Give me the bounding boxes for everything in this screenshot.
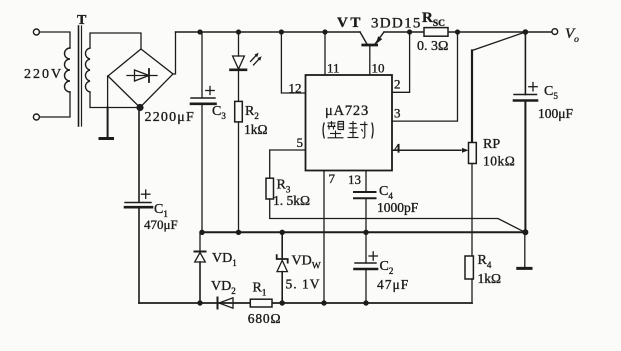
LED arrows bbox=[251, 55, 257, 62]
resistor R3 bbox=[266, 178, 274, 199]
transformer T primary bbox=[65, 48, 71, 92]
node bottom vertex bbox=[136, 104, 143, 111]
wire to output terminal bbox=[552, 29, 558, 35]
svg-text:1000pF: 1000pF bbox=[377, 200, 419, 215]
capacitor C1 bbox=[125, 202, 151, 204]
node ground junction bbox=[522, 229, 528, 235]
wire bridge right vertex to rail bbox=[173, 32, 176, 74]
svg-text:R2: R2 bbox=[245, 104, 259, 121]
wire base to pin10 bbox=[369, 46, 371, 75]
wire secondary top bbox=[90, 33, 141, 49]
wire pin3 bbox=[392, 32, 458, 121]
svg-text:5: 5 bbox=[297, 135, 304, 150]
capacitor C4 bbox=[354, 191, 376, 193]
transformer core bbox=[78, 26, 80, 126]
svg-text:1. 5kΩ: 1. 5kΩ bbox=[273, 193, 310, 208]
svg-text:7: 7 bbox=[329, 171, 336, 186]
wire pin2 bbox=[392, 32, 410, 92]
svg-text:220V: 220V bbox=[24, 67, 63, 82]
svg-text:VD2: VD2 bbox=[211, 279, 236, 296]
bridge rectifier bbox=[108, 49, 173, 108]
ground (output) bbox=[524, 232, 526, 267]
svg-text:RP: RP bbox=[483, 137, 500, 152]
svg-text:C3: C3 bbox=[212, 104, 226, 121]
wire mid rail bbox=[202, 231, 525, 233]
wire top rail bbox=[176, 31, 361, 33]
svg-text:4: 4 bbox=[394, 141, 401, 156]
transistor VT collector bbox=[360, 32, 367, 44]
svg-text:1kΩ: 1kΩ bbox=[244, 122, 268, 137]
terminal input bottom bbox=[33, 114, 39, 120]
capacitor C5 bbox=[524, 32, 526, 95]
node bottom junctions bbox=[197, 300, 202, 305]
wire secondary bottom bbox=[90, 92, 140, 108]
wire R3 bottom to ground node bbox=[270, 199, 526, 233]
svg-text:680Ω: 680Ω bbox=[248, 311, 281, 326]
svg-text:1kΩ: 1kΩ bbox=[478, 271, 502, 286]
wire C3 branch bbox=[201, 32, 203, 98]
svg-text:R4: R4 bbox=[478, 253, 492, 270]
diode VD2 bbox=[217, 298, 219, 309]
svg-text:T: T bbox=[77, 13, 87, 28]
glyph su bbox=[328, 121, 344, 138]
svg-text:2200μF: 2200μF bbox=[145, 110, 196, 125]
ground (near bridge) bbox=[100, 137, 113, 140]
wire slant to output node bbox=[472, 32, 525, 51]
wire RP riser bbox=[471, 51, 473, 143]
wire C1 branch bbox=[138, 108, 140, 203]
op-amp regulator IC uA723 bbox=[306, 75, 393, 171]
svg-text:470μF: 470μF bbox=[144, 217, 178, 232]
svg-text:47μF: 47μF bbox=[377, 277, 409, 292]
wire bottom rail bbox=[139, 302, 250, 304]
wire pin5 bbox=[270, 150, 306, 178]
svg-text:10kΩ: 10kΩ bbox=[483, 154, 515, 169]
LED diode bbox=[233, 56, 245, 69]
svg-text:μA723: μA723 bbox=[325, 103, 369, 119]
bridge diode symbol bbox=[127, 75, 157, 77]
svg-text:VT: VT bbox=[337, 15, 363, 31]
svg-text:VDW: VDW bbox=[292, 254, 321, 272]
svg-text:13: 13 bbox=[348, 172, 361, 187]
transformer T secondary bbox=[85, 48, 90, 92]
wire bbox=[40, 32, 70, 48]
wire pin12 bbox=[281, 32, 305, 93]
wire pin7 bbox=[323, 171, 325, 304]
capacitor C2 bbox=[365, 232, 367, 263]
svg-text:RSC: RSC bbox=[422, 10, 445, 29]
wire pin11 bbox=[324, 32, 326, 75]
svg-text:11: 11 bbox=[327, 61, 340, 76]
resistor RSC bbox=[424, 28, 448, 37]
glyph feng bbox=[348, 121, 368, 138]
svg-text:0. 3Ω: 0. 3Ω bbox=[417, 39, 448, 54]
wire bbox=[40, 92, 70, 117]
terminal input top bbox=[33, 29, 39, 35]
wire pin13 bbox=[365, 171, 367, 193]
capacitor C3 bbox=[191, 97, 215, 99]
svg-text:3DD15: 3DD15 bbox=[371, 16, 422, 32]
resistor R4 bbox=[465, 256, 473, 279]
transistor VT emitter bbox=[375, 32, 384, 44]
svg-text:10: 10 bbox=[372, 61, 385, 76]
svg-text:R3: R3 bbox=[277, 178, 291, 195]
transistor VT base bar bbox=[363, 44, 377, 47]
resistor R2 bbox=[235, 101, 243, 122]
wire bridge left vertex down bbox=[107, 76, 109, 108]
wire pin4 to RP wiper bbox=[392, 149, 461, 151]
svg-text:12: 12 bbox=[289, 81, 302, 96]
svg-text:Vo: Vo bbox=[565, 26, 579, 45]
potentiometer RP bbox=[469, 143, 477, 164]
svg-text:C2: C2 bbox=[380, 259, 394, 276]
svg-text:C5: C5 bbox=[544, 84, 558, 101]
node rail junctions bbox=[197, 29, 202, 34]
svg-text:R1: R1 bbox=[253, 281, 267, 298]
svg-text:3: 3 bbox=[394, 106, 401, 121]
svg-text:100μF: 100μF bbox=[538, 106, 573, 121]
svg-text:C4: C4 bbox=[379, 184, 393, 201]
LED branch wire bbox=[238, 32, 240, 56]
svg-text:2: 2 bbox=[394, 77, 401, 92]
svg-text:5. 1V: 5. 1V bbox=[286, 277, 321, 292]
resistor R1 bbox=[250, 299, 272, 307]
label (su feng) plastic package bbox=[323, 123, 373, 139]
zener diode VDW bbox=[281, 232, 283, 258]
svg-text:VD1: VD1 bbox=[212, 251, 237, 268]
diode VD1 bbox=[199, 232, 201, 251]
